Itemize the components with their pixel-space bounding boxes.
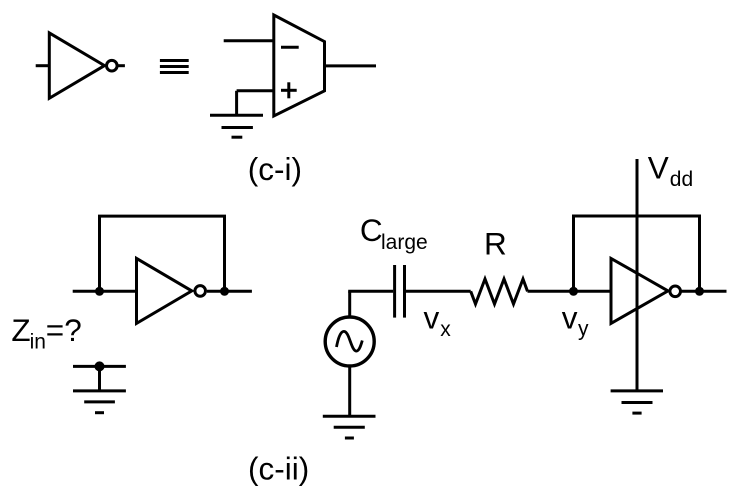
svg-text:=?: =? xyxy=(46,312,82,348)
svg-text:in: in xyxy=(30,331,46,354)
svg-text:v: v xyxy=(424,300,440,336)
svg-text:R: R xyxy=(484,225,507,261)
svg-text:V: V xyxy=(648,150,669,186)
svg-text:large: large xyxy=(381,231,428,254)
svg-text:dd: dd xyxy=(670,168,693,191)
svg-text:y: y xyxy=(578,318,589,341)
svg-text:x: x xyxy=(440,318,451,341)
svg-text:Z: Z xyxy=(11,312,30,348)
svg-text:(c-ii): (c-ii) xyxy=(248,451,309,487)
svg-text:C: C xyxy=(360,212,383,248)
svg-text:v: v xyxy=(562,299,578,335)
svg-text:(c-i): (c-i) xyxy=(248,151,302,187)
